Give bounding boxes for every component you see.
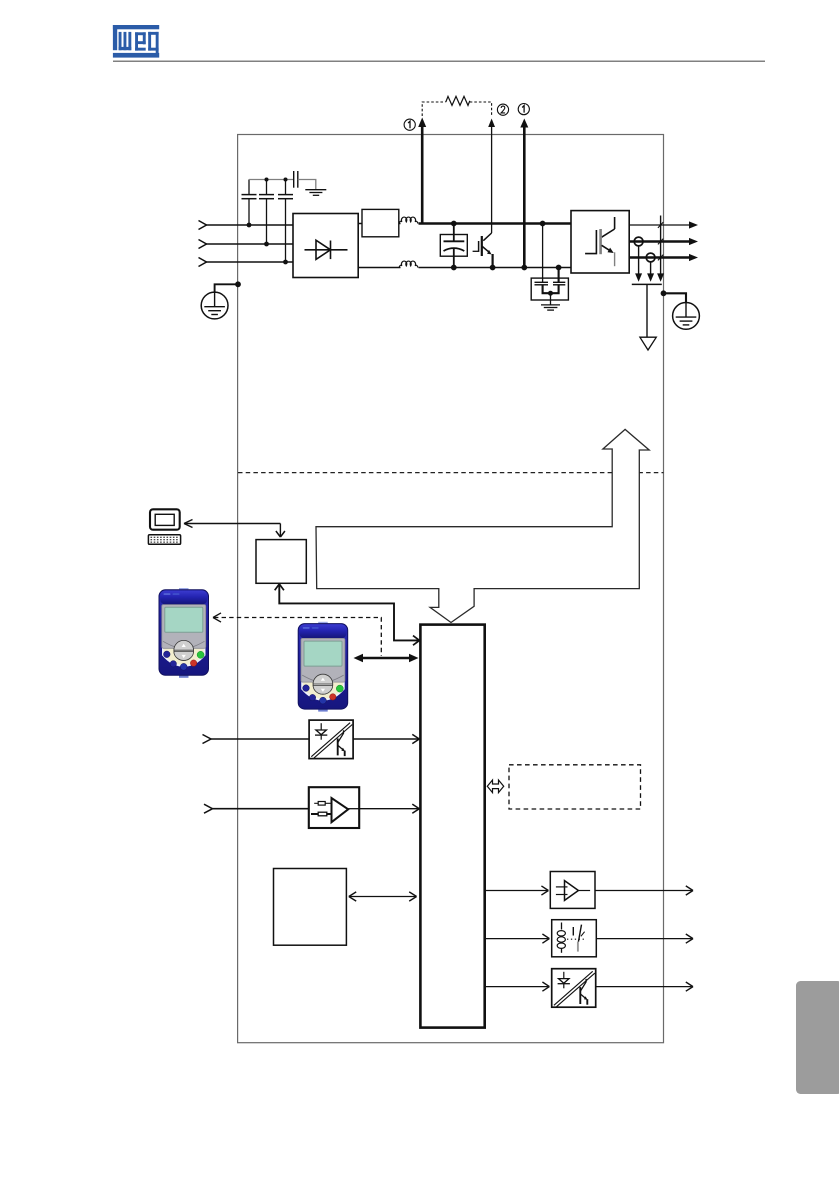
node phase T cap junction: [283, 260, 288, 265]
capacitor RFI C1: [242, 180, 257, 226]
wire +UD terminal arrow (thick, up): [418, 118, 426, 224]
capacitor DC link: [440, 224, 467, 268]
pre-charge box: [362, 209, 399, 236]
node braking emitter junction: [490, 265, 496, 271]
wire relay output line: [596, 934, 693, 943]
drive enclosure box: [238, 135, 664, 1043]
wire option interface (hollow double arrow): [487, 780, 503, 793]
capacitor RFI C2: [259, 180, 274, 245]
inverter output stage box: [571, 211, 629, 273]
node 1 (-UD terminal label): [518, 104, 529, 115]
CPU box: [420, 625, 484, 1028]
wire serial-CPU link: [275, 584, 420, 645]
wire analog inputs: [204, 804, 309, 813]
node PE output junction: [661, 290, 667, 296]
wire CPU to relay output arrow: [486, 934, 549, 943]
ground (RFI filter): [305, 190, 326, 196]
wire input phase R: [199, 221, 294, 230]
inductor choke L+: [399, 217, 418, 223]
page side tab: [796, 981, 839, 1094]
current transducer CT1: [634, 237, 643, 246]
node cap bus junction 2: [284, 178, 288, 182]
node cap bus junction 1: [265, 178, 269, 182]
wire -UD terminal arrow (thick, up): [520, 119, 528, 268]
resistor braking (dashed, external): [422, 96, 491, 116]
serial interface box: [256, 540, 306, 584]
ground motor arrow (hollow): [640, 337, 656, 350]
op-amp analog output block: [550, 872, 595, 909]
wire shield to motor ground: [646, 284, 648, 337]
wire DC- (rectifier to choke): [358, 267, 400, 269]
wire RFI cap bus: [249, 179, 294, 181]
wire snubber - lead: [558, 268, 560, 283]
option board dashed box: [509, 765, 641, 809]
wire PE input: [215, 284, 238, 292]
keypad HMI local: [298, 622, 348, 712]
wire remote keypad dashed link: [213, 613, 381, 656]
bus pipe control-power (hollow arrows): [316, 429, 649, 622]
wire digital output line: [597, 982, 694, 991]
wire DC+ (rectifier to choke): [358, 223, 400, 225]
node snubber DC+ junction: [540, 221, 546, 227]
wire CPU to analog output arrow: [486, 886, 548, 895]
node phase S cap junction: [264, 242, 269, 247]
ground (snubber): [541, 305, 560, 310]
optocoupler digital output block: [552, 969, 596, 1008]
relay output block: [552, 920, 597, 957]
wire analog input to CPU arrow: [359, 804, 419, 813]
wire keypad-CPU arrow (bidirectional): [354, 654, 419, 662]
wire output U: [629, 221, 698, 228]
op-amp analog input block: [309, 787, 359, 828]
node phase R cap junction: [247, 223, 252, 228]
wire shield drop arrow: [657, 216, 664, 282]
wire output W (thick): [629, 254, 698, 261]
power supply box: [274, 869, 347, 946]
ground PE (output side): [673, 303, 700, 330]
computer PC icon: [148, 509, 180, 544]
wire CT2 feedback arrow: [647, 262, 654, 282]
wire DC+ bus (thick): [419, 222, 572, 225]
wire snubber + lead: [542, 224, 544, 283]
wire CT1 feedback arrow: [635, 246, 642, 282]
wire analog output line: [595, 886, 693, 895]
capacitor RFI C3: [278, 180, 293, 263]
node -UD junction: [521, 265, 527, 271]
node DC- cap junction: [451, 265, 457, 271]
power/control dashed divider: [238, 472, 664, 474]
wire serial to PC arrow: [184, 520, 285, 538]
transistor braking IGBT: [473, 233, 493, 268]
wire input phase S: [199, 240, 294, 249]
node 2 (BR terminal label): [497, 104, 508, 115]
node PE input junction: [235, 281, 241, 287]
wire digital inputs: [203, 735, 310, 744]
wire PE output: [664, 293, 687, 302]
node DC+ cap junction: [451, 221, 457, 227]
ground PE (input side): [201, 292, 228, 319]
capacitor RFI C4 (to ground): [294, 171, 298, 188]
keypad HMI remote: [159, 588, 209, 678]
wire CPU to digital output arrow: [486, 982, 549, 991]
header rule: [113, 60, 765, 62]
wire BR terminal arrow (thin, up): [488, 119, 495, 234]
node 1 (+UD terminal label): [404, 119, 415, 130]
optocoupler digital input block: [309, 720, 353, 759]
wire C4 to ground: [298, 180, 316, 190]
wire input phase T: [199, 258, 294, 267]
wire DC- bus: [419, 267, 572, 269]
current transducer CT2: [646, 253, 655, 262]
wire PSU-CPU arrow (bidirectional): [349, 892, 417, 901]
transistor inverter IGBT: [585, 217, 615, 266]
node snubber DC- junction: [556, 265, 562, 271]
rectifier bridge: [293, 214, 358, 278]
wire shield bar: [632, 283, 662, 285]
inductor choke L-: [399, 261, 418, 267]
wire digital input to CPU arrow: [353, 734, 419, 743]
WEG logo: [113, 25, 159, 58]
wire output V (thick): [629, 238, 698, 245]
capacitor snubber Y-block: [531, 278, 568, 305]
